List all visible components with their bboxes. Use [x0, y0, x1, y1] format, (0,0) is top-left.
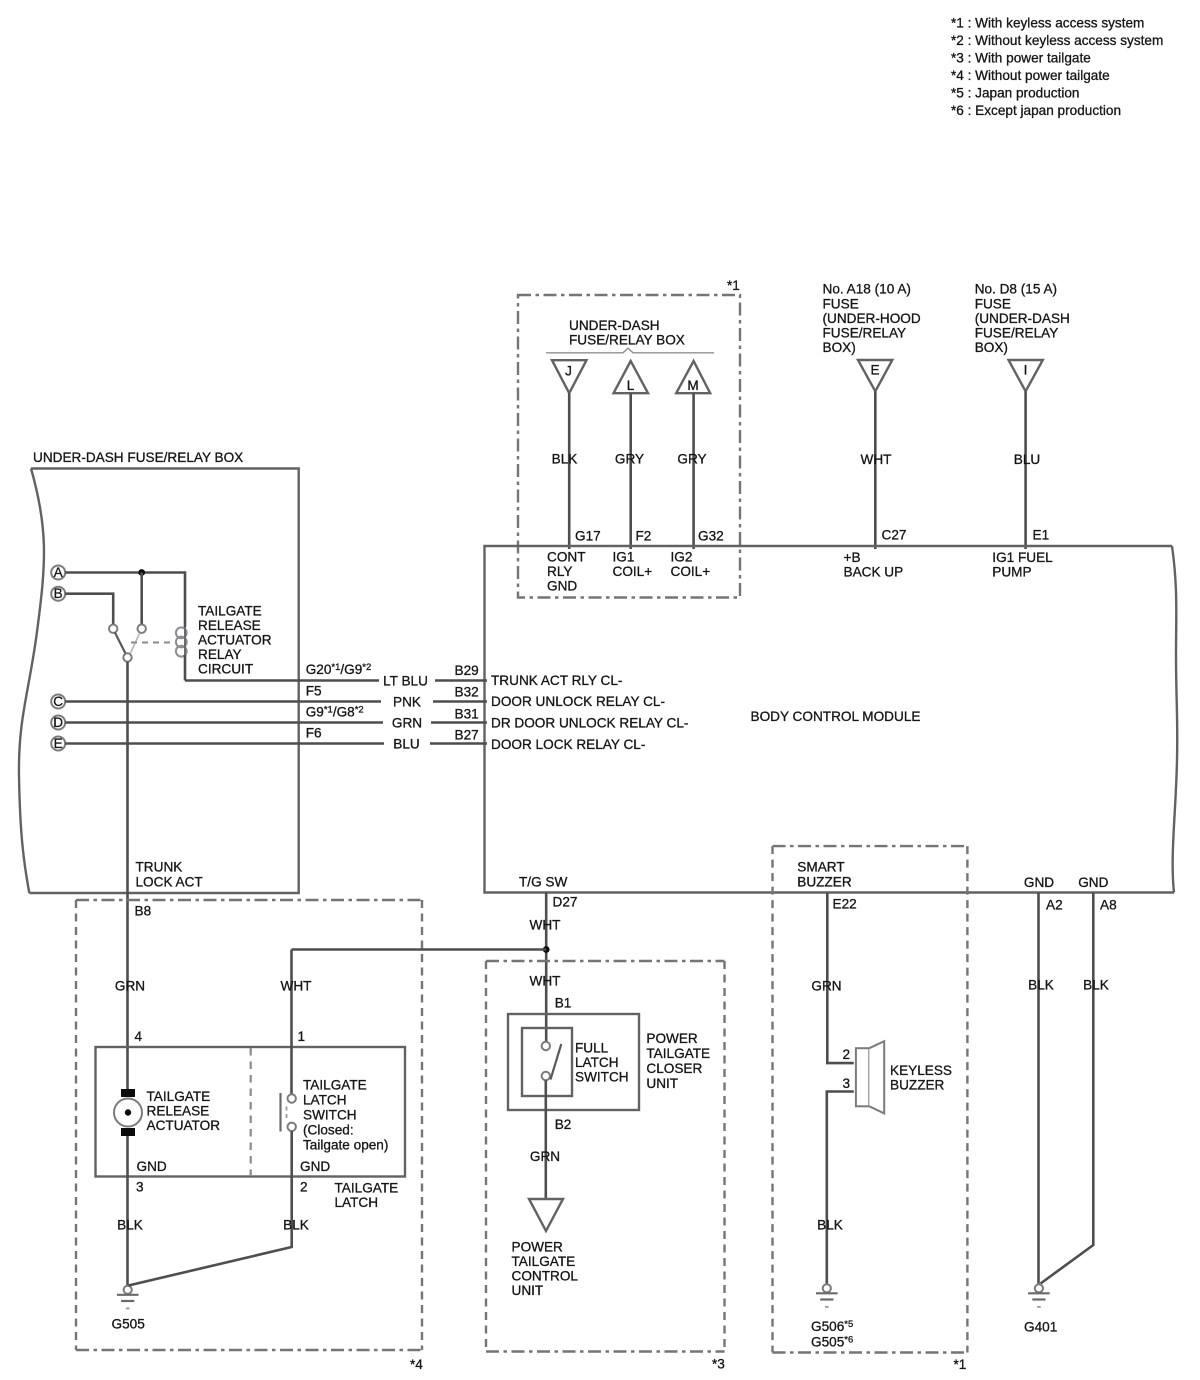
label keyless buzzer — [890, 1063, 952, 1093]
svg-text:BLU: BLU — [393, 737, 419, 752]
svg-text:E: E — [54, 736, 63, 751]
BCM bottom pin text SMART BUZZER — [797, 860, 852, 890]
relay fixed contact (from A) — [138, 625, 146, 633]
junction node D27/latch — [543, 946, 550, 953]
svg-text:TAILGATE: TAILGATE — [335, 1181, 399, 1196]
svg-text:PUMP: PUMP — [992, 564, 1031, 579]
junction node on A wire — [138, 569, 145, 576]
svg-text:POWER: POWER — [512, 1240, 564, 1255]
svg-text:TRUNK: TRUNK — [136, 860, 183, 875]
svg-text:COIL+: COIL+ — [671, 564, 711, 579]
tailgate latch box — [96, 1047, 406, 1177]
svg-text:4: 4 — [135, 1029, 143, 1044]
svg-text:B: B — [54, 586, 63, 601]
label tailgate release actuator — [147, 1089, 221, 1133]
svg-text:B8: B8 — [135, 904, 152, 919]
svg-text:BODY CONTROL MODULE: BODY CONTROL MODULE — [751, 709, 921, 724]
svg-text:D27: D27 — [553, 895, 578, 910]
svg-text:G505: G505 — [112, 1317, 145, 1332]
svg-text:CONT: CONT — [547, 550, 586, 565]
svg-text:3: 3 — [136, 1180, 144, 1195]
svg-text:F6: F6 — [306, 726, 322, 741]
svg-text:+B: +B — [844, 550, 861, 565]
svg-text:*1 : With keyless access syste: *1 : With keyless access system — [951, 16, 1144, 31]
svg-text:*4 : Without power tailgate: *4 : Without power tailgate — [951, 68, 1110, 83]
svg-text:LATCH: LATCH — [335, 1195, 379, 1210]
terminal D — [51, 715, 65, 730]
svg-text:FUSE: FUSE — [823, 297, 859, 312]
svg-text:LOCK ACT: LOCK ACT — [136, 875, 203, 890]
wire BCM A8 to ground G401 — [1041, 893, 1094, 1284]
fuse No. D8 label — [975, 282, 1070, 356]
svg-text:SWITCH: SWITCH — [303, 1108, 357, 1123]
wire segment to B32 — [433, 700, 487, 703]
svg-text:3: 3 — [843, 1076, 851, 1091]
svg-text:A2: A2 — [1046, 898, 1063, 913]
svg-text:RLY: RLY — [547, 564, 572, 579]
wire segment to B29 — [435, 679, 487, 682]
label tailgate latch — [335, 1181, 399, 1211]
relay coil — [176, 627, 187, 681]
svg-text:B31: B31 — [455, 707, 479, 722]
wire E to BCM pin B27 (left segment) — [65, 742, 384, 745]
svg-text:WHT: WHT — [281, 979, 312, 994]
label power tailgate closer unit — [646, 1031, 710, 1091]
full latch switch inner box — [522, 1028, 572, 1096]
svg-text:BOX): BOX) — [975, 340, 1008, 355]
svg-text:BLK: BLK — [1028, 978, 1054, 993]
svg-text:TAILGATE: TAILGATE — [646, 1046, 710, 1061]
svg-text:GRY: GRY — [677, 452, 706, 467]
svg-text:FUSE/RELAY: FUSE/RELAY — [823, 326, 907, 341]
wire segment to B27 — [430, 742, 487, 745]
svg-text:GRN: GRN — [530, 1149, 560, 1164]
latch box internal divider — [250, 1048, 252, 1176]
under-dash fuse/relay box (left, solid) — [19, 450, 299, 893]
svg-text:COIL+: COIL+ — [613, 564, 653, 579]
wire junction to relay contact — [140, 573, 143, 625]
svg-text:E1: E1 — [1033, 528, 1050, 543]
wire BCM D27 down to full latch switch — [545, 893, 548, 1043]
note legend — [951, 16, 1163, 119]
svg-text:WHT: WHT — [530, 974, 561, 989]
svg-text:GND: GND — [137, 1159, 167, 1174]
wire junction to tailgate latch switch — [292, 948, 547, 951]
svg-text:SWITCH: SWITCH — [575, 1070, 629, 1085]
svg-text:A8: A8 — [1100, 898, 1117, 913]
svg-text:CONTROL: CONTROL — [512, 1269, 579, 1284]
svg-text:(UNDER-HOOD: (UNDER-HOOD — [823, 311, 921, 326]
wire from A to relay coil — [65, 573, 185, 628]
svg-text:*1: *1 — [727, 278, 740, 293]
relay movable arm — [115, 632, 126, 654]
svg-text:LATCH: LATCH — [575, 1055, 619, 1070]
svg-text:GND: GND — [1078, 875, 1108, 890]
svg-text:IG1 FUEL: IG1 FUEL — [992, 550, 1053, 565]
wire tailgate latch switch to T/G SW line — [290, 950, 293, 1095]
wire coil to BCM pin B29 (left segment) — [185, 679, 379, 682]
svg-text:B1: B1 — [555, 996, 572, 1011]
svg-text:IG1: IG1 — [613, 550, 635, 565]
svg-text:TAILGATE: TAILGATE — [198, 604, 262, 619]
ground G505 — [112, 1286, 145, 1332]
svg-text:BLK: BLK — [1083, 978, 1109, 993]
svg-text:D: D — [53, 715, 63, 730]
svg-text:CIRCUIT: CIRCUIT — [198, 662, 253, 677]
under-dash fuse/relay box (top, dashed, *1) — [518, 278, 740, 598]
svg-text:PNK: PNK — [393, 695, 421, 710]
svg-text:TRUNK ACT RLY CL-: TRUNK ACT RLY CL- — [491, 673, 622, 688]
svg-text:B32: B32 — [455, 685, 479, 700]
svg-text:No. D8 (15 A): No. D8 (15 A) — [975, 282, 1057, 297]
fuse connector I — [1009, 360, 1043, 391]
power tailgate closer unit box — [508, 1014, 639, 1110]
terminal E — [51, 736, 65, 751]
keyless buzzer BZ1 — [856, 1041, 884, 1113]
fuse No. A18 label — [823, 282, 921, 356]
svg-text:ACTUATOR: ACTUATOR — [147, 1118, 221, 1133]
svg-text:G401: G401 — [1024, 1320, 1057, 1335]
svg-text:C: C — [53, 694, 63, 709]
svg-text:GND: GND — [300, 1159, 330, 1174]
ground G506*5/G505*6 — [811, 1284, 853, 1349]
svg-text:*3: *3 — [712, 1357, 725, 1372]
svg-text:UNDER-DASH: UNDER-DASH — [569, 318, 660, 333]
dashed option box *1 (smart buzzer, keyless) — [773, 846, 968, 1372]
svg-text:J: J — [565, 364, 572, 379]
svg-text:FUSE: FUSE — [975, 297, 1011, 312]
terminal C — [51, 694, 65, 709]
svg-text:G32: G32 — [698, 529, 724, 544]
full latch switch S2 — [542, 1042, 562, 1080]
svg-text:LATCH: LATCH — [303, 1093, 347, 1108]
svg-text:WHT: WHT — [861, 452, 892, 467]
svg-text:(UNDER-DASH: (UNDER-DASH — [975, 311, 1070, 326]
svg-text:BUZZER: BUZZER — [890, 1078, 945, 1093]
svg-text:KEYLESS: KEYLESS — [890, 1063, 952, 1078]
svg-text:WHT: WHT — [530, 918, 561, 933]
svg-text:RELAY: RELAY — [198, 647, 242, 662]
relay alternate throw (faint) — [131, 634, 140, 654]
svg-text:GRY: GRY — [615, 452, 644, 467]
svg-text:BLK: BLK — [283, 1218, 309, 1233]
wire D to BCM pin B31 (left segment) — [65, 721, 383, 724]
wire J to BCM pin G17 — [568, 393, 571, 549]
svg-text:2: 2 — [300, 1180, 308, 1195]
BCM top pin text IG1 FUEL PUMP — [992, 550, 1053, 579]
BCM top pin text +B BACK UP — [844, 550, 904, 579]
svg-text:BUZZER: BUZZER — [797, 874, 852, 889]
wire BCM E22 to keyless buzzer pin 2 — [827, 893, 854, 1064]
wire keyless buzzer pin 3 to ground — [827, 1092, 854, 1284]
svg-text:*4: *4 — [410, 1357, 423, 1372]
relay pole contact — [123, 653, 131, 661]
svg-text:GRN: GRN — [115, 979, 145, 994]
svg-text:TAILGATE: TAILGATE — [512, 1254, 576, 1269]
wire fuse E to BCM pin C27 — [874, 391, 877, 549]
svg-text:UNIT: UNIT — [512, 1283, 544, 1298]
svg-text:E22: E22 — [833, 897, 857, 912]
wire full latch switch to power tailgate control unit — [544, 1080, 547, 1199]
BCM top pin text IG1 COIL+ — [613, 550, 653, 580]
wire C to BCM pin B32 (left segment) — [65, 700, 381, 703]
svg-text:M: M — [687, 378, 698, 393]
svg-text:FULL: FULL — [575, 1040, 609, 1055]
svg-text:GRN: GRN — [811, 979, 841, 994]
fuse connector E — [858, 360, 892, 391]
svg-text:F2: F2 — [636, 529, 652, 544]
terminal A — [51, 565, 65, 580]
svg-text:RELEASE: RELEASE — [147, 1104, 210, 1119]
svg-text:*2 : Without keyless access sy: *2 : Without keyless access system — [951, 33, 1163, 48]
bracket over connectors — [546, 348, 714, 353]
svg-text:FUSE/RELAY BOX: FUSE/RELAY BOX — [569, 333, 685, 348]
svg-text:UNIT: UNIT — [646, 1076, 678, 1091]
svg-text:BLK: BLK — [817, 1218, 843, 1233]
svg-text:Tailgate open): Tailgate open) — [303, 1138, 388, 1153]
svg-text:*3 : With power tailgate: *3 : With power tailgate — [951, 51, 1091, 66]
wire actuator to ground G505 — [126, 1136, 129, 1285]
label power tailgate control unit — [512, 1240, 579, 1299]
svg-text:LT BLU: LT BLU — [383, 674, 428, 689]
svg-text:GND: GND — [547, 579, 577, 594]
connector M — [676, 361, 710, 393]
svg-text:POWER: POWER — [646, 1031, 698, 1046]
svg-text:*5 : Japan production: *5 : Japan production — [951, 86, 1079, 101]
svg-text:A: A — [54, 565, 64, 580]
svg-text:No. A18 (10 A): No. A18 (10 A) — [823, 282, 911, 297]
svg-text:B2: B2 — [555, 1117, 572, 1132]
svg-text:I: I — [1024, 363, 1028, 378]
tailgate release actuator M1 (motor) — [114, 1089, 142, 1136]
tailgate latch switch S1 — [281, 1093, 296, 1132]
wire L to BCM pin F2 — [629, 393, 632, 549]
svg-text:GND: GND — [1024, 875, 1054, 890]
dashed option box *4 (without power tailgate) — [76, 900, 423, 1372]
svg-text:C27: C27 — [882, 528, 907, 543]
svg-text:IG2: IG2 — [671, 550, 693, 565]
body control module U-BCM — [485, 546, 1178, 893]
wire fuse I to BCM pin E1 — [1024, 391, 1027, 549]
label trunk lock act — [136, 860, 203, 890]
svg-text:BLU: BLU — [1014, 452, 1040, 467]
connector J — [552, 360, 587, 393]
BCM top pin text CONT RLY GND — [547, 550, 586, 594]
svg-text:G17: G17 — [575, 529, 601, 544]
svg-text:TAILGATE: TAILGATE — [147, 1089, 211, 1104]
svg-text:1: 1 — [298, 1029, 306, 1044]
svg-text:F5: F5 — [306, 684, 322, 699]
svg-text:DOOR UNLOCK RELAY CL-: DOOR UNLOCK RELAY CL- — [491, 694, 665, 709]
svg-text:BLK: BLK — [552, 452, 578, 467]
wire relay pole down to tailgate release actuator — [126, 662, 129, 1089]
svg-text:L: L — [627, 378, 635, 393]
wire BCM A2 to ground G401 — [1037, 893, 1040, 1284]
label tailgate latch switch — [303, 1078, 388, 1153]
svg-text:2: 2 — [843, 1047, 851, 1062]
terminal B — [51, 586, 65, 601]
svg-text:DOOR LOCK RELAY CL-: DOOR LOCK RELAY CL- — [491, 737, 645, 752]
svg-text:BACK UP: BACK UP — [844, 564, 904, 579]
svg-text:GRN: GRN — [392, 716, 422, 731]
svg-text:FUSE/RELAY: FUSE/RELAY — [975, 326, 1059, 341]
connector L — [614, 361, 649, 393]
wire M to BCM pin G32 — [692, 393, 695, 549]
svg-text:B29: B29 — [455, 663, 479, 678]
svg-text:BOX): BOX) — [823, 340, 856, 355]
svg-text:B27: B27 — [455, 728, 479, 743]
svg-text:UNDER-DASH FUSE/RELAY BOX: UNDER-DASH FUSE/RELAY BOX — [33, 450, 243, 465]
label tailgate release actuator relay circuit — [198, 604, 272, 677]
wire latch switch to ground G505 — [129, 1131, 292, 1286]
svg-text:E: E — [870, 363, 879, 378]
svg-text:*1: *1 — [954, 1357, 967, 1372]
dashed option box *3 (with power tailgate) — [486, 961, 725, 1372]
label full latch switch — [575, 1040, 629, 1084]
svg-text:CLOSER: CLOSER — [646, 1061, 702, 1076]
relay fixed contact (from B) — [109, 625, 117, 633]
svg-text:ACTUATOR: ACTUATOR — [198, 633, 272, 648]
svg-text:(Closed:: (Closed: — [303, 1123, 354, 1138]
ground G401 — [1024, 1284, 1057, 1334]
relay actuation dashed link — [131, 642, 177, 644]
svg-text:RELEASE: RELEASE — [198, 618, 261, 633]
wire segment to B31 — [431, 721, 487, 724]
BCM top pin text IG2 COIL+ — [671, 550, 711, 580]
svg-text:*6 : Except japan production: *6 : Except japan production — [951, 103, 1121, 118]
wire from B to relay contact — [65, 594, 113, 625]
svg-text:TAILGATE: TAILGATE — [303, 1078, 367, 1093]
svg-text:DR DOOR UNLOCK RELAY CL-: DR DOOR UNLOCK RELAY CL- — [491, 716, 688, 731]
svg-text:SMART: SMART — [797, 860, 844, 875]
connector arrow power tailgate control unit — [529, 1199, 563, 1231]
svg-text:BLK: BLK — [117, 1218, 143, 1233]
svg-text:T/G SW: T/G SW — [519, 875, 567, 890]
